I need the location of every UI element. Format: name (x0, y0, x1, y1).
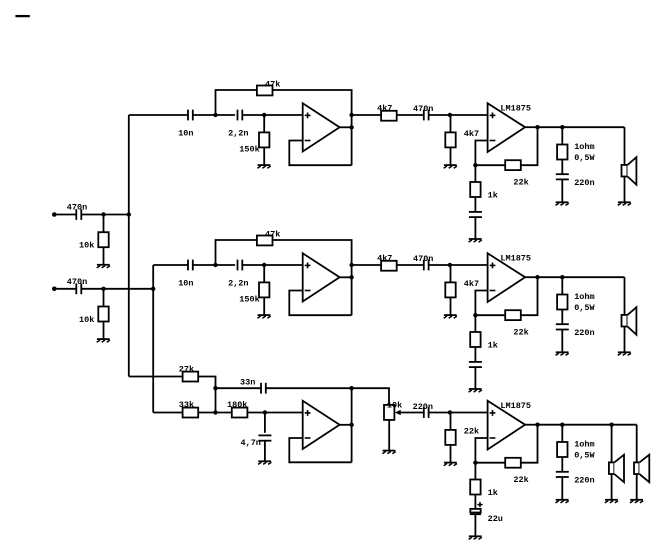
svg-text:10k: 10k (79, 315, 94, 325)
svg-text:1k: 1k (488, 341, 498, 351)
svg-text:33k: 33k (179, 400, 194, 410)
svg-text:10k: 10k (79, 241, 94, 251)
svg-text:470n: 470n (67, 277, 87, 287)
svg-text:2,2n: 2,2n (228, 128, 248, 138)
svg-text:LM1875: LM1875 (500, 104, 531, 114)
svg-text:150k: 150k (239, 144, 259, 154)
svg-text:470n: 470n (413, 104, 433, 114)
svg-text:22k: 22k (513, 475, 528, 485)
svg-text:1k: 1k (488, 191, 498, 201)
svg-text:4k7: 4k7 (377, 254, 392, 264)
svg-text:10n: 10n (178, 128, 193, 138)
svg-text:2,2n: 2,2n (228, 278, 248, 288)
svg-text:1ohm: 1ohm (574, 439, 594, 449)
svg-text:22u: 22u (488, 514, 503, 524)
svg-text:LM1875: LM1875 (500, 254, 531, 264)
svg-text:47k: 47k (265, 229, 280, 239)
svg-text:470n: 470n (67, 203, 87, 213)
svg-text:220n: 220n (413, 402, 433, 412)
svg-text:1ohm: 1ohm (574, 142, 594, 152)
svg-text:33n: 33n (240, 377, 255, 387)
svg-text:22k: 22k (513, 177, 528, 187)
svg-text:22k: 22k (464, 427, 479, 437)
svg-text:180k: 180k (227, 400, 247, 410)
svg-text:47k: 47k (265, 79, 280, 89)
svg-text:22k: 22k (513, 327, 528, 337)
svg-text:10n: 10n (178, 278, 193, 288)
svg-text:0,5W: 0,5W (574, 303, 595, 313)
svg-text:4k7: 4k7 (377, 104, 392, 114)
svg-text:4k7: 4k7 (464, 279, 479, 289)
svg-text:27k: 27k (179, 364, 194, 374)
svg-text:470n: 470n (413, 254, 433, 264)
svg-text:0,5W: 0,5W (574, 153, 595, 163)
svg-text:220n: 220n (574, 476, 594, 486)
svg-text:220n: 220n (574, 328, 594, 338)
svg-text:10k: 10k (387, 401, 402, 411)
svg-text:1ohm: 1ohm (574, 292, 594, 302)
svg-text:150k: 150k (239, 294, 259, 304)
svg-text:LM1875: LM1875 (500, 401, 531, 411)
svg-text:0,5W: 0,5W (574, 450, 595, 460)
svg-text:4k7: 4k7 (464, 129, 479, 139)
svg-text:220n: 220n (574, 178, 594, 188)
svg-text:4,7n: 4,7n (241, 438, 261, 448)
svg-text:1k: 1k (488, 488, 498, 498)
